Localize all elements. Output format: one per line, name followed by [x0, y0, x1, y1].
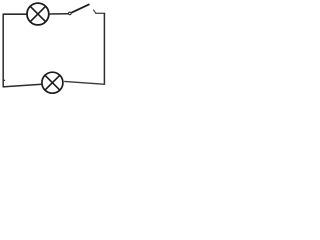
switch S1 fixed contact — [93, 10, 96, 14]
wire top-left segment — [3, 13, 27, 15]
lamp L2 circle — [42, 72, 63, 93]
wire bottom-right segment — [64, 81, 105, 84]
lamp L2 cross — [45, 75, 60, 90]
wire left vertical — [2, 14, 4, 87]
wire right vertical — [103, 13, 105, 85]
wire top-middle segment — [49, 13, 68, 15]
switch S1 pivot — [69, 12, 72, 15]
lamp L1 cross — [30, 6, 45, 21]
wire top-right segment — [95, 12, 105, 14]
switch S1 blade — [71, 4, 89, 13]
wire bottom-left segment — [3, 84, 42, 87]
junction nub on left wire — [4, 79, 5, 82]
lamp L1 circle — [27, 3, 49, 25]
